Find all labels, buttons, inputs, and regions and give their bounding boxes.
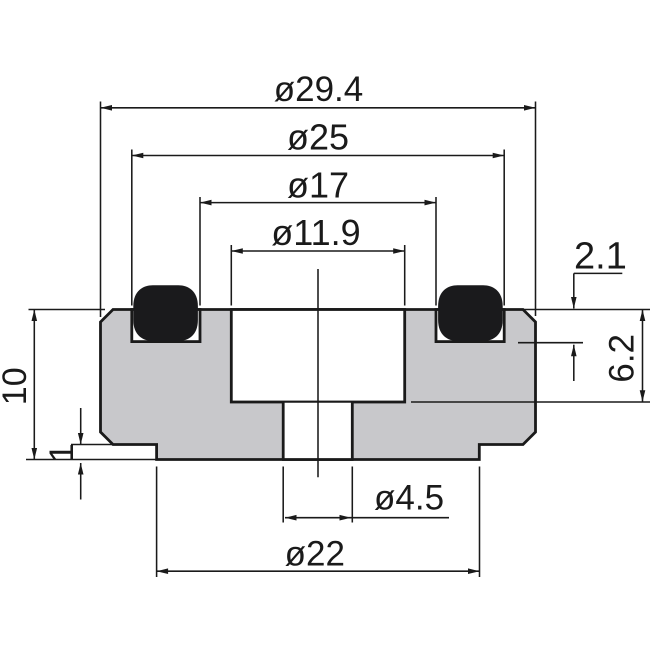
- dim o25 left arrow: [132, 153, 144, 159]
- dim o25 extension line left: [131, 150, 133, 306]
- right O-ring: [438, 285, 503, 341]
- dim o29.4 line: [101, 107, 536, 109]
- dim o22 left arrow: [157, 568, 169, 574]
- dim 1 lower arrow: [78, 463, 84, 475]
- dim 1 upper arrow line: [80, 408, 82, 445]
- dim 2.1 lower arrow: [571, 345, 577, 357]
- dim 10 top arrow: [32, 310, 38, 322]
- central recess bore: [231, 310, 404, 403]
- dim o29.4 extension line left: [100, 102, 102, 318]
- dim o29.4 extension line right: [535, 102, 537, 317]
- dim o11.9 left arrow: [231, 248, 243, 254]
- dim o17 line: [200, 202, 436, 204]
- centerline: [317, 269, 319, 477]
- svg-text:ø4.5: ø4.5: [374, 479, 444, 518]
- svg-text:ø22: ø22: [285, 534, 345, 573]
- dim o11.9 line: [231, 250, 404, 252]
- dim o4.5 extension line left: [282, 467, 284, 523]
- dim o25 line: [132, 155, 504, 157]
- central slot hole: [283, 402, 352, 460]
- slot top thin edge: [283, 401, 352, 403]
- dim o11.9 extension line left: [230, 245, 232, 306]
- dim o22 extension line right: [479, 467, 481, 578]
- dim 10 bottom arrow: [32, 448, 38, 460]
- svg-text:ø25: ø25: [287, 116, 349, 157]
- dim o22 extension line left: [156, 467, 158, 578]
- dim 2.1 upper arrow line: [573, 273, 575, 308]
- dim 6.2 top arrow: [640, 310, 646, 322]
- dim o17 left arrow: [200, 200, 212, 206]
- dim o4.5 extension line right: [351, 467, 353, 523]
- dim o22 right arrow: [468, 568, 480, 574]
- dim o11.9 right arrow: [393, 248, 405, 254]
- dim 1 lower arrow line: [80, 463, 82, 500]
- dim 2.1 leader line: [574, 272, 623, 274]
- groove bottom extension line: [518, 342, 583, 344]
- recess floor right extension line: [411, 401, 650, 403]
- dim 1 upper arrow: [78, 433, 84, 445]
- dim 2.1 upper arrow: [571, 297, 577, 309]
- dim o22 line: [157, 570, 480, 572]
- svg-text:1: 1: [43, 443, 81, 462]
- slot left wall: [282, 402, 285, 460]
- dim o4.5 left arrow: [285, 515, 297, 521]
- slot bottom edge: [282, 458, 354, 461]
- dim o17 right arrow: [425, 200, 437, 206]
- dim o11.9 extension line right: [404, 245, 406, 306]
- top surface right extension line: [524, 309, 650, 311]
- dim o17 extension line left: [199, 197, 201, 306]
- right O-ring groove: [436, 310, 504, 342]
- dim 6.2 bottom arrow: [640, 390, 646, 402]
- dim o29.4 right arrow: [524, 105, 536, 111]
- top surface left extension line: [29, 309, 106, 311]
- left O-ring: [133, 285, 198, 341]
- slot right wall: [351, 402, 354, 460]
- dim o25 right arrow: [493, 153, 505, 159]
- dim o25 extension line right: [503, 150, 505, 306]
- svg-text:6.2: 6.2: [603, 334, 642, 383]
- dim 2.1 lower arrow line: [573, 345, 575, 381]
- svg-text:ø11.9: ø11.9: [271, 212, 360, 253]
- flange bottom extension line: [71, 444, 113, 446]
- svg-text:2.1: 2.1: [574, 235, 627, 277]
- left O-ring groove: [132, 310, 200, 342]
- dim o29.4 left arrow: [101, 105, 113, 111]
- dim o17 extension line right: [435, 197, 437, 306]
- dim 10 line: [33, 310, 35, 460]
- bottom extension line: [26, 459, 157, 461]
- dim o4.5 right arrow: [340, 515, 352, 521]
- dim o4.5 line with leader: [285, 517, 449, 519]
- part body (gray cross-section with chamfers): [101, 310, 536, 460]
- svg-text:ø29.4: ø29.4: [274, 70, 364, 109]
- svg-text:ø17: ø17: [287, 165, 349, 206]
- dim 6.2 line: [642, 310, 644, 402]
- svg-text:10: 10: [0, 367, 34, 405]
